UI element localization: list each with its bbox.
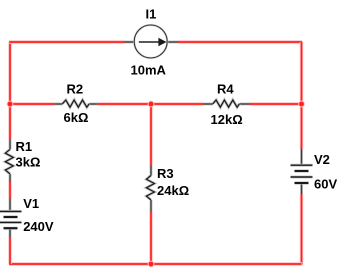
svg-text:V1: V1 (23, 196, 39, 211)
wire left vertical between R1 and V1 (10,181)-(10,198.5) (8, 181, 11, 199)
svg-text:3kΩ: 3kΩ (16, 155, 41, 170)
svg-text:24kΩ: 24kΩ (157, 183, 189, 198)
battery V2 pins (300, 149, 303, 194)
wire left vertical mid (10,104)-(10,140) (8, 104, 11, 140)
wire right vertical upper (301.5,42)-(301.5,149) (300, 41, 303, 149)
wire middle row center (97.5,104)-(205,104) (98, 102, 204, 105)
svg-text:R1: R1 (16, 139, 33, 154)
svg-text:R4: R4 (217, 82, 234, 97)
battery V1 plates (0, 211, 22, 228)
resistor R2 zigzag (62, 100, 89, 107)
wire left vertical V1 to bottom (10,238)-(10,264) (8, 238, 11, 265)
junction dot at node (151,264) (148, 261, 155, 268)
junction dot at node (151,104) (148, 101, 155, 108)
current source I1 circle (134, 25, 167, 58)
current source I1 arrow (139, 38, 167, 47)
svg-text:10mA: 10mA (131, 63, 167, 78)
wire center vertical upper (151,104)-(151,165) (149, 104, 152, 166)
current source I1 pins (125, 41, 179, 44)
resistor R3 zigzag (146, 175, 154, 200)
svg-text:240V: 240V (23, 219, 54, 234)
junction dot at node (301.5,104) (298, 101, 305, 108)
wire top horizontal left (10,42)-(121,42) (9, 40, 125, 43)
wire right vertical lower (301.5,194)-(301.5,264) (300, 194, 303, 265)
wire center vertical lower (151,211.5)-(151,264) (149, 212, 152, 265)
wire bottom horizontal (10,264)-(301.5,264) (9, 262, 302, 265)
resistor R1 zigzag (5, 149, 13, 174)
svg-text:R2: R2 (67, 82, 84, 97)
wire top horizontal right (181,42)-(301.5,42) (178, 40, 302, 43)
svg-text:R3: R3 (157, 166, 174, 181)
svg-text:V2: V2 (314, 152, 330, 167)
svg-text:12kΩ: 12kΩ (211, 112, 243, 127)
wire middle row right (248.5,104)-(301.5,104) (250, 102, 302, 105)
resistor R2 pins (55, 103, 98, 106)
svg-text:6kΩ: 6kΩ (64, 110, 89, 125)
svg-text:60V: 60V (314, 177, 337, 192)
resistor R4 zigzag (213, 100, 240, 107)
battery V1 pins (9, 199, 12, 239)
resistor R1 pins (9, 140, 12, 182)
wire middle row left (10,104)-(55,104) (10, 102, 55, 105)
svg-text:I1: I1 (146, 7, 157, 22)
wire top-left vertical (10,42)-(10,104) (8, 41, 11, 104)
junction dot at node (10,104) (7, 101, 14, 108)
resistor R3 pins (150, 166, 153, 212)
resistor R4 pins (204, 103, 251, 106)
battery V2 plates (291, 165, 313, 183)
